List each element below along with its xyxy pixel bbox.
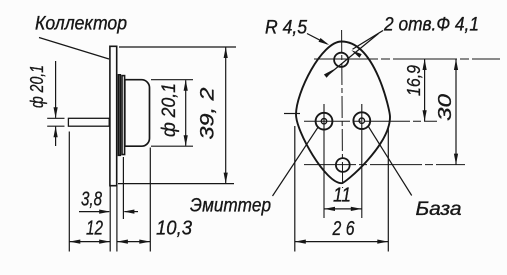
side view: collector lead pin [68,118,109,126]
leader to top hole NE edge with arrow [353,31,384,50]
dim ф20,1 (lead): lines + arrows [55,61,57,118]
dim 30: line + arrows [455,59,457,165]
svg-text:ф 20,1: ф 20,1 [159,83,180,137]
svg-text:3,8: 3,8 [81,189,102,211]
bottom extension lines of side view [68,132,70,252]
svg-text:База: База [416,199,462,220]
side view: can body [125,80,150,147]
svg-text:R 4,5: R 4,5 [265,18,307,39]
svg-text:12: 12 [86,218,103,240]
dim ф20,1 (lead): extension ticks [47,117,64,119]
dim 10,3 [117,241,150,243]
base pin hole [353,112,370,129]
svg-text:30: 30 [435,94,455,121]
side view: insulator plate 1 [119,75,121,156]
leader Эмиттер to emitter hole [273,127,319,197]
svg-text:ф 20,1: ф 20,1 [27,65,47,108]
dim 16,9: line + arrows [424,59,426,121]
dim 39,2: line + arrows [225,47,227,184]
dim 3,8 [79,211,109,213]
emitter pin hole [316,113,333,130]
leader line from Коллектор to flange [39,38,109,60]
base pin vertical centerline + 11 extension [361,104,363,218]
horizontal centerline through top hole (extension for 16,9 / 30) [314,58,500,60]
emitter pin vertical centerline + 11 extension [323,104,325,218]
dim ф20,1 (can): line + arrows [185,80,187,146]
diameter line across top hole with SW arrow [326,34,378,77]
horizontal centerline through pin holes (extension for 16,9) [304,120,437,122]
svg-text:Эмиттер: Эмиттер [190,196,271,217]
svg-text:2 6: 2 6 [332,218,355,240]
top mounting hole [334,53,348,67]
dim 39,2: extension lines [119,46,236,48]
leader База to base hole [368,126,412,195]
dim 11 [324,208,362,210]
flange outline (view from pin side) [296,42,390,184]
side view: mounting flange plate [110,46,117,185]
svg-text:10,3: 10,3 [156,218,192,240]
dim 26: extension lines [294,126,296,252]
dim ф20,1 (can): extension lines [151,79,193,81]
dim 12 [69,241,110,243]
horizontal centerline through bottom hole (extension for 30) [304,164,465,166]
side view: insulator plate 2 [122,76,125,155]
leader R4,5 with arrow [307,34,327,44]
svg-text:Коллектор: Коллектор [35,14,127,35]
svg-text:16,9: 16,9 [404,65,424,96]
left corner centerline mark [284,113,300,115]
vertical centerline [342,30,343,188]
svg-text:39, 2: 39, 2 [198,87,219,140]
bottom mounting hole [336,158,350,172]
svg-text:2 отв.Ф 4,1: 2 отв.Ф 4,1 [383,15,479,36]
svg-text:11: 11 [333,185,351,207]
dim 26: line + arrows [295,241,389,243]
